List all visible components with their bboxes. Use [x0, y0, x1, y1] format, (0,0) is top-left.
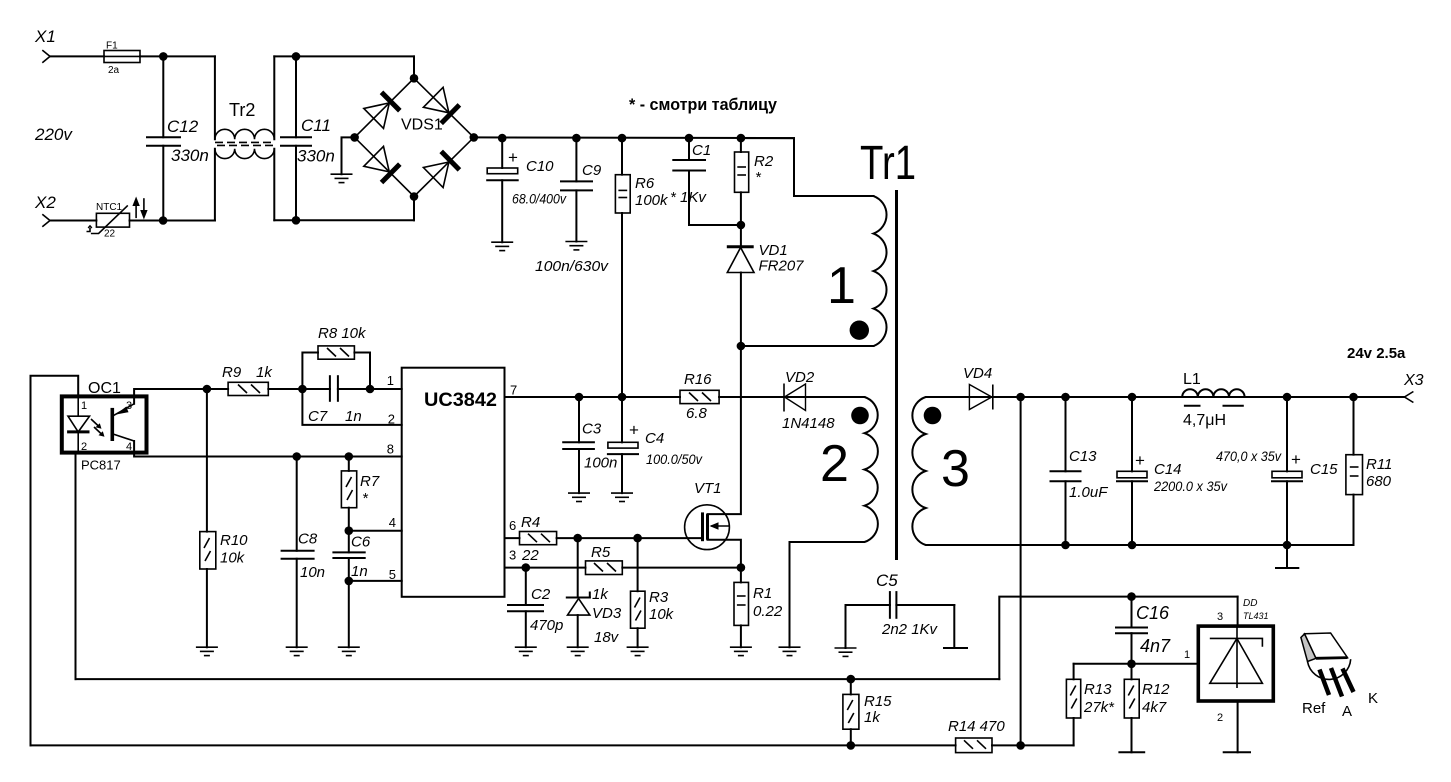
svg-text:* - смотри таблицу: * - смотри таблицу — [629, 95, 778, 114]
svg-text:C12: C12 — [167, 117, 199, 136]
node C2 — [522, 563, 531, 572]
node C3 — [575, 393, 584, 402]
svg-text:22: 22 — [104, 229, 116, 240]
bridge diode bottom-right — [441, 151, 459, 170]
resistor R2 — [740, 138, 742, 152]
capacitor C5 — [846, 604, 890, 606]
ground under C9 — [565, 242, 587, 250]
svg-text:R10: R10 — [220, 532, 248, 549]
svg-text:2200.0 x 35v: 2200.0 x 35v — [1153, 479, 1228, 494]
wire R9 to C7 node — [268, 388, 330, 390]
svg-text:UC3842: UC3842 — [424, 389, 497, 411]
LED inside OC1 — [77, 396, 79, 416]
bridge diode top-right — [441, 105, 459, 124]
svg-text:C3: C3 — [582, 421, 602, 438]
node R15 top — [847, 675, 856, 684]
node C14 bottom — [1128, 541, 1137, 550]
svg-text:C1: C1 — [692, 142, 711, 159]
svg-text:4: 4 — [389, 515, 396, 530]
svg-text:R5: R5 — [591, 544, 611, 561]
svg-text:X1: X1 — [34, 27, 56, 46]
resistor R16 — [680, 390, 719, 403]
node C9 — [572, 134, 581, 143]
svg-text:1: 1 — [387, 373, 394, 388]
node R3 — [633, 534, 642, 543]
wire feedback bus lower — [31, 744, 956, 746]
capacitor C16 — [1131, 597, 1133, 628]
winding 3 — [912, 397, 1353, 545]
svg-text:1N4148: 1N4148 — [782, 415, 835, 432]
node snubber — [737, 221, 746, 230]
svg-text:VD1: VD1 — [759, 242, 788, 259]
node C7 right — [366, 385, 375, 394]
wire bridge left to ground — [342, 137, 355, 174]
svg-text:10k: 10k — [649, 606, 675, 623]
svg-text:R2: R2 — [754, 153, 774, 170]
transistor package TO-92 — [1301, 634, 1316, 662]
resistor R6 — [621, 138, 623, 175]
svg-text:+: + — [1291, 450, 1301, 469]
svg-text:6.8: 6.8 — [686, 405, 708, 422]
node C13 bottom — [1061, 541, 1070, 550]
resistor R5 — [586, 561, 623, 575]
wire feedback bus upper — [76, 678, 1000, 680]
svg-text:27k*: 27k* — [1083, 699, 1115, 716]
svg-text:VD2: VD2 — [785, 369, 815, 386]
core Tr1 — [895, 190, 898, 560]
svg-text:1n: 1n — [345, 408, 362, 425]
svg-text:3: 3 — [1217, 611, 1223, 623]
node C13 top — [1061, 393, 1070, 402]
svg-text:PC817: PC817 — [81, 458, 121, 473]
svg-text:680: 680 — [1366, 473, 1392, 490]
op-amp U1 UC3842 — [402, 368, 505, 597]
node pin5 — [345, 577, 354, 586]
capacitor C3 — [578, 397, 580, 442]
svg-text:VD3: VD3 — [592, 605, 622, 622]
bridge rectifier VDS1 — [413, 56, 415, 78]
wire vertical B output sense — [1020, 397, 1022, 745]
diode VD2 1N4148 — [719, 396, 864, 398]
node R1 — [737, 563, 746, 572]
wire pin3 line — [505, 567, 586, 569]
ground under C8 — [286, 647, 308, 655]
svg-text:R13: R13 — [1084, 681, 1112, 698]
svg-text:2a: 2a — [108, 65, 120, 76]
svg-text:2n2 1Kv: 2n2 1Kv — [881, 621, 939, 638]
bridge diode bottom-left — [382, 164, 400, 182]
svg-text:4k7: 4k7 — [1142, 699, 1167, 716]
node R11 top — [1349, 393, 1358, 402]
ground under R10 — [196, 647, 218, 655]
wire Tr2 top right to bridge — [274, 55, 414, 57]
svg-text:1k: 1k — [592, 586, 609, 603]
ground under VD3 — [567, 647, 589, 655]
node C15 bottom — [1283, 541, 1292, 550]
node C11 bottom — [292, 216, 301, 225]
capacitor C10 — [501, 138, 503, 168]
ground under R3 — [627, 647, 649, 655]
wire pin5 — [349, 580, 402, 582]
node pin4 — [345, 526, 354, 535]
ground under C2 — [515, 647, 537, 655]
resistor R1 — [740, 568, 742, 583]
diode VD4 — [969, 385, 991, 410]
resistor R4 — [520, 532, 557, 545]
ground under C4 — [611, 493, 633, 501]
node C12 bottom — [159, 216, 168, 225]
wire X1 to fuse — [50, 55, 104, 57]
wire R5 to R1 — [622, 567, 741, 569]
ground under C10 — [491, 242, 513, 250]
svg-text:C8: C8 — [298, 531, 318, 548]
node R2 top — [737, 134, 746, 143]
node C1 top — [685, 134, 694, 143]
node bridge top — [410, 74, 419, 83]
IC DD TL431 — [1198, 626, 1273, 701]
resistor R8 — [302, 353, 318, 390]
node C10 — [498, 134, 507, 143]
svg-text:1k: 1k — [256, 364, 273, 381]
svg-text:4n7: 4n7 — [1140, 636, 1171, 656]
svg-text:68.0/400v: 68.0/400v — [512, 192, 567, 207]
node R7 — [345, 452, 354, 461]
capacitor C14 — [1131, 397, 1133, 471]
node C12 top — [159, 52, 168, 61]
node ref — [1127, 660, 1136, 669]
inductor L1 — [1182, 389, 1244, 397]
svg-text:220v: 220v — [34, 125, 73, 144]
svg-text:R14 470: R14 470 — [948, 718, 1005, 735]
svg-text:330n: 330n — [297, 147, 335, 166]
svg-text:R12: R12 — [1142, 681, 1170, 698]
svg-text:C15: C15 — [1310, 461, 1338, 478]
wire VD1 to winding 1 — [741, 345, 874, 347]
ground under winding 2 — [779, 647, 801, 655]
svg-text:4: 4 — [126, 441, 132, 453]
node C14 top — [1128, 393, 1137, 402]
svg-text:* 1Kv: * 1Kv — [670, 189, 707, 206]
wire pin6 gate line — [505, 537, 520, 539]
svg-text:X3: X3 — [1403, 372, 1424, 389]
svg-text:100n: 100n — [584, 455, 617, 472]
svg-text:R9: R9 — [222, 364, 242, 381]
svg-text:C4: C4 — [645, 430, 664, 447]
wire vertical A — [999, 597, 1237, 680]
svg-text:C10: C10 — [526, 158, 554, 175]
capacitor C2 — [525, 568, 527, 605]
svg-text:8: 8 — [387, 442, 394, 457]
svg-text:R7: R7 — [360, 473, 380, 490]
svg-text:VD4: VD4 — [963, 365, 992, 382]
winding 1 — [741, 196, 887, 346]
svg-text:1n: 1n — [351, 563, 368, 580]
terminal X2 — [42, 214, 50, 227]
zener VD3 18v — [577, 538, 579, 597]
svg-text:X2: X2 — [34, 193, 56, 212]
wire pin4 — [349, 530, 402, 532]
wire R4 to gate — [557, 537, 703, 539]
node drain — [737, 342, 746, 351]
capacitor C12 — [162, 56, 164, 137]
svg-text:7: 7 — [510, 383, 517, 398]
svg-text:6: 6 — [509, 518, 516, 533]
svg-text:C14: C14 — [1154, 461, 1182, 478]
transistor VT1 — [685, 505, 730, 550]
node bridge right — [470, 133, 479, 142]
node C4 — [618, 393, 627, 402]
wire OC1 pin2 — [75, 453, 77, 679]
svg-text:R16: R16 — [684, 371, 712, 388]
svg-text:330n: 330n — [171, 146, 209, 165]
svg-text:22: 22 — [521, 547, 539, 564]
svg-text:C11: C11 — [301, 116, 331, 135]
svg-text:2: 2 — [1217, 712, 1223, 724]
svg-text:1: 1 — [1184, 649, 1190, 661]
svg-text:1: 1 — [81, 400, 87, 412]
terminal X3 — [1405, 392, 1414, 403]
svg-text:4,7μH: 4,7μH — [1183, 412, 1226, 429]
diode VD1 FR207 — [740, 225, 742, 247]
svg-text:R1: R1 — [753, 585, 772, 602]
resistor R13 — [1073, 664, 1075, 680]
svg-text:R3: R3 — [649, 589, 669, 606]
ground stub secondary — [1286, 545, 1288, 568]
capacitor C4 — [621, 397, 623, 442]
svg-text:TL431: TL431 — [1243, 611, 1269, 621]
svg-text:+: + — [629, 421, 639, 440]
resistor R10 — [206, 389, 208, 532]
svg-text:1.0uF: 1.0uF — [1069, 484, 1108, 501]
ground under R1 — [730, 647, 752, 655]
node C11 top — [292, 52, 301, 61]
svg-text:1: 1 — [827, 257, 856, 315]
fuse F1 — [104, 51, 140, 63]
svg-text:10k: 10k — [220, 550, 246, 567]
svg-text:100k: 100k — [635, 192, 669, 209]
svg-text:18v: 18v — [594, 629, 620, 646]
bridge diode top-left — [382, 92, 400, 110]
node R14 right — [1016, 741, 1025, 750]
svg-text:0.22: 0.22 — [753, 603, 783, 620]
svg-text:C2: C2 — [531, 586, 551, 603]
svg-text:NTC1: NTC1 — [96, 202, 123, 213]
node C8 — [292, 452, 301, 461]
wire output bus — [993, 396, 1405, 398]
svg-text:10n: 10n — [300, 564, 325, 581]
capacitor C8 — [296, 457, 298, 551]
svg-text:3: 3 — [941, 440, 970, 498]
capacitor C6 — [348, 531, 350, 553]
wire OC1 pin4 to pin8 line — [134, 441, 402, 457]
svg-text:C5: C5 — [876, 571, 898, 590]
phototransistor inside OC1 — [111, 408, 115, 441]
wire node line TL431 ref — [1074, 663, 1199, 665]
svg-text:K: K — [1368, 690, 1378, 707]
terminal X1 — [42, 50, 50, 63]
node bridge left — [350, 133, 359, 142]
capacitor C13 — [1065, 397, 1067, 471]
svg-text:F1: F1 — [106, 41, 118, 52]
svg-text:VDS1: VDS1 — [401, 117, 443, 134]
resistor R3 — [637, 538, 639, 591]
wire OC1 pin3 to R9 — [134, 389, 228, 404]
node R6 top — [618, 134, 627, 143]
capacitor C9 — [575, 138, 577, 181]
svg-text:VT1: VT1 — [694, 480, 722, 497]
resistor R11 — [1353, 397, 1355, 455]
node Vout sense — [1016, 393, 1025, 402]
svg-text:A: A — [1342, 703, 1352, 720]
node bridge bottom — [410, 192, 419, 201]
svg-text:5: 5 — [389, 567, 396, 582]
svg-text:Tr1: Tr1 — [860, 137, 916, 190]
wire fuse to Tr2 top — [140, 55, 215, 57]
svg-text:R6: R6 — [635, 175, 655, 192]
svg-text:+: + — [1135, 451, 1145, 470]
svg-text:100n/630v: 100n/630v — [535, 258, 610, 275]
capacitor C15 — [1286, 397, 1288, 471]
wire pin2 — [302, 389, 401, 425]
svg-text:100.0/50v: 100.0/50v — [646, 452, 703, 467]
arrows at NTC1 — [135, 200, 137, 218]
svg-text:L1: L1 — [1183, 371, 1201, 388]
svg-text:C7: C7 — [308, 408, 328, 425]
resistor R7 — [348, 457, 350, 471]
node C7 left — [298, 385, 307, 394]
winding 2 — [790, 397, 878, 647]
svg-text:C13: C13 — [1069, 448, 1097, 465]
svg-text:C6: C6 — [351, 534, 371, 551]
svg-text:R11: R11 — [1366, 456, 1392, 473]
svg-text:Ref: Ref — [1302, 700, 1326, 717]
svg-text:C9: C9 — [582, 162, 602, 179]
capacitor C1 — [688, 138, 690, 160]
resistor R9 — [228, 382, 268, 395]
svg-text:+: + — [508, 148, 518, 167]
node C15 top — [1283, 393, 1292, 402]
svg-text:C16: C16 — [1136, 603, 1170, 623]
capacitor C11 — [295, 56, 297, 137]
svg-text:OC1: OC1 — [88, 380, 121, 397]
svg-text:470,0 x 35v: 470,0 x 35v — [1216, 449, 1282, 464]
resistor R14 — [956, 738, 992, 753]
light arrows OC1 — [91, 419, 100, 427]
thermistor NTC1 — [96, 213, 129, 227]
optocoupler OC1 PC817 — [62, 396, 147, 452]
ground under C3 — [568, 493, 590, 501]
svg-text:2: 2 — [820, 435, 849, 493]
wire pin7 line — [505, 396, 681, 398]
resistor R15 — [843, 694, 859, 729]
svg-text:R8 10k: R8 10k — [318, 325, 367, 342]
wire OC1 pin1 — [31, 376, 79, 746]
svg-text:R15: R15 — [864, 693, 892, 710]
wire DC bus — [474, 136, 794, 139]
svg-text:Tr2: Tr2 — [229, 100, 255, 120]
resistor R12 — [1131, 664, 1133, 680]
svg-text:FR207: FR207 — [759, 258, 805, 275]
svg-text:DD: DD — [1243, 598, 1257, 609]
ground under C6 — [338, 647, 360, 655]
capacitor C7 — [329, 376, 331, 401]
svg-text:24v 2.5a: 24v 2.5a — [1347, 345, 1406, 362]
svg-text:R4: R4 — [521, 514, 540, 531]
svg-text:3: 3 — [509, 548, 516, 563]
svg-text:470p: 470p — [530, 617, 563, 634]
wire Tr2 bottom right to bridge — [274, 219, 414, 221]
ground at bridge — [331, 174, 353, 182]
wire NTC1 to Tr2 bottom — [130, 220, 215, 222]
node C16 top — [1127, 592, 1136, 601]
wire X2 to NTC1 — [50, 220, 96, 222]
svg-text:1k: 1k — [864, 709, 881, 726]
svg-text:2: 2 — [81, 441, 87, 453]
node R15 bottom — [847, 741, 856, 750]
node VD3 — [573, 534, 582, 543]
node R10 — [203, 385, 212, 394]
